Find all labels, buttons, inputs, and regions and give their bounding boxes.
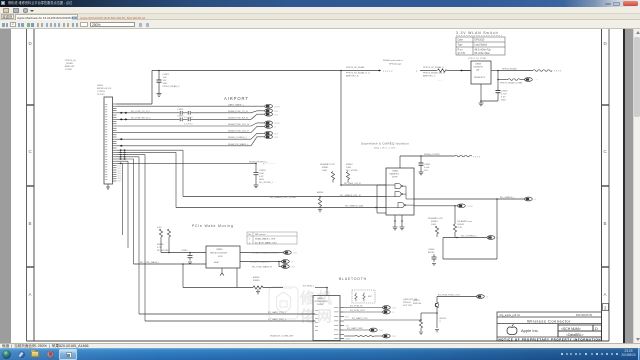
U3901 right pin wire	[491, 71, 533, 91]
svg-text:0.1uF NO: 0.1uF NO	[184, 124, 193, 126]
frame row tick left DC	[27, 104, 35, 106]
U3990 body	[206, 246, 240, 268]
svg-text:D: D	[29, 41, 33, 46]
svg-text:WL_CLKREQ_L: WL_CLKREQ_L	[461, 236, 478, 238]
mux bottom vertical to bt wire	[236, 268, 238, 288]
svg-text:@ 3.3V: @ 3.3V	[458, 53, 466, 55]
svg-text:x - - - - - - -: x - - - - - - -	[263, 163, 276, 166]
second row wavy + pad	[508, 79, 520, 81]
svg-text:WL_PCIE_RX_N_C: WL_PCIE_RX_N_C	[131, 117, 151, 119]
svg-text:16V: 16V	[163, 80, 167, 82]
R3943 cluster	[428, 217, 443, 226]
wire vertical from SMBUS junction down	[496, 199, 498, 259]
U3901 left pin	[462, 70, 471, 72]
svg-text:CTS: CTS	[345, 325, 350, 327]
BT module pin stubs	[340, 308, 344, 339]
Q4510 transistor	[435, 302, 439, 308]
BT wire row 1	[344, 307, 383, 309]
svg-text:x x: x x	[393, 335, 397, 338]
svg-text:BT_UART_TXD: BT_UART_TXD	[352, 317, 368, 320]
svg-text:WLAN_CLK32K: WLAN_CLK32K	[424, 153, 440, 156]
mux right out wire 1	[240, 252, 284, 254]
pad row 4	[251, 121, 280, 126]
svg-text:PP3V3_S0: PP3V3_S0	[65, 60, 76, 62]
capacitor C3941	[419, 156, 424, 175]
svg-text:R3990: R3990	[253, 280, 260, 282]
svg-text:J4500: J4500	[97, 85, 104, 87]
svg-text:BT_UART_RXD_L: BT_UART_RXD_L	[268, 318, 287, 321]
status bar	[0, 343, 640, 348]
svg-text:- - -: - - -	[535, 79, 539, 82]
svg-text:x x x: x x x	[275, 105, 281, 108]
frame row tick right DC	[602, 104, 610, 106]
connector pin stubs	[113, 104, 117, 181]
toolbar	[0, 20, 640, 29]
left pullup cluster labels	[157, 227, 169, 252]
svg-text:x x: x x	[275, 113, 279, 116]
svg-text:- - -: - - -	[438, 79, 442, 82]
svg-text:2N7002: 2N7002	[403, 302, 411, 304]
gate 2	[386, 192, 403, 197]
wire: top feed vertical into connector	[117, 71, 472, 105]
svg-text:U3901: U3901	[475, 64, 482, 66]
junction at cap C3901	[158, 70, 160, 72]
junction diamonds row 2	[120, 112, 128, 114]
svg-text:BT_ACPI_WAKE_L_R3991: BT_ACPI_WAKE_L_R3991	[252, 252, 280, 255]
svg-text:Type: Type	[458, 45, 464, 47]
frame row tick right BA	[602, 266, 610, 268]
svg-text:TYPE2L: TYPE2L	[97, 91, 106, 93]
BT wire row 5 wavy to pad	[344, 335, 355, 337]
net label block PP3V3 mid	[346, 66, 370, 78]
spec table	[456, 37, 505, 55]
pad row 1	[265, 104, 281, 108]
svg-text:WL_SMBUS_SCL_CONN: WL_SMBUS_SCL_CONN	[270, 197, 296, 199]
svg-text:PP3V3_WLAN: PP3V3_WLAN	[502, 67, 517, 70]
R3992 pulldown	[253, 286, 263, 294]
svg-text:A: A	[604, 292, 607, 297]
svg-text:U3990: U3990	[216, 249, 223, 251]
wire loop bottom horizontal	[443, 258, 497, 260]
mux right out wire 2 to stacked pads	[240, 262, 282, 267]
watermark text	[299, 289, 332, 325]
svg-text:x: x	[535, 198, 537, 201]
svg-text:WL_SMBUS_SDA: WL_SMBUS_SDA	[345, 205, 364, 208]
svg-text:Superflash & ClkREQ Isolation: Superflash & ClkREQ Isolation	[361, 142, 409, 146]
svg-text:GND2: GND2	[345, 338, 350, 340]
BT wire row 3 long	[344, 319, 421, 321]
svg-text:x x: x x	[380, 329, 384, 332]
svg-text:WL_SMBUS_L: WL_SMBUS_L	[500, 197, 515, 199]
watermark logo shield	[269, 287, 298, 319]
BT wire row 4	[344, 329, 370, 331]
svg-text:WLAN_PCIE_CLK_N: WLAN_PCIE_CLK_N	[228, 123, 249, 126]
window title bar	[0, 0, 640, 7]
svg-text:3.3V: 3.3V	[157, 227, 162, 229]
svg-text:BT_UART_TXD_L: BT_UART_TXD_L	[268, 311, 287, 314]
svg-text:PCIe Wake Muxing: PCIe Wake Muxing	[192, 224, 234, 228]
pullup cluster labels	[320, 163, 358, 172]
svg-text:AIRPORT: AIRPORT	[65, 65, 75, 68]
svg-text:R4510: R4510	[440, 318, 447, 320]
svg-text:WLAN_PCIE_TX_N: WLAN_PCIE_TX_N	[228, 110, 248, 113]
svg-text:0603: 0603	[259, 179, 265, 181]
svg-text:AIRPORT: AIRPORT	[224, 96, 249, 101]
svg-text:A3745: A3745	[428, 251, 435, 254]
svg-text:6.3V: 6.3V	[501, 97, 506, 99]
connector pin numbers smear	[105, 104, 107, 180]
window buttons	[605, 3, 611, 6]
wavy connection run top	[533, 70, 552, 72]
svg-text:ANT: ANT	[368, 295, 373, 298]
junction at C3918	[255, 163, 257, 165]
frame bottom line	[27, 340, 610, 342]
svg-text:SFI/Q4 page: SFI/Q4 page	[389, 63, 402, 65]
svg-text:WLAN_PE_WAKE_L: WLAN_PE_WAKE_L	[228, 143, 249, 146]
svg-text:R3990: R3990	[157, 244, 164, 246]
start orb	[2, 350, 11, 359]
svg-text:3.3V WLAN Switch: 3.3V WLAN Switch	[456, 31, 498, 35]
svg-text:C3920: C3920	[177, 115, 184, 117]
svg-text:D: D	[604, 41, 608, 46]
svg-text:SN74LVC1G3157: SN74LVC1G3157	[210, 253, 228, 255]
svg-text:BT_PCM_IN: BT_PCM_IN	[350, 306, 363, 308]
svg-text:PP3V3_S0_WLAN: PP3V3_S0_WLAN	[346, 66, 365, 69]
mux truth table	[247, 232, 297, 244]
wire BT_PCM_SYNC	[437, 297, 477, 303]
wire row 3 with series caps C3920	[117, 118, 252, 122]
long wire WL_SMBUS lower	[176, 206, 458, 208]
frame left outer line	[26, 29, 28, 341]
svg-text:100K: 100K	[431, 224, 437, 226]
svg-text:820-00165 05: 820-00165 05	[576, 313, 593, 317]
svg-text:WLAN_CLKREQ_L: WLAN_CLKREQ_L	[228, 136, 248, 139]
svg-text:B: B	[29, 221, 32, 226]
tray icons	[0, 347, 640, 349]
svg-text:0: 0	[440, 321, 442, 323]
diamond arrow mid	[378, 70, 381, 72]
svg-text:WLAN_BT_CONN_DET: WLAN_BT_CONN_DET	[270, 335, 294, 338]
svg-text:4.7uF: 4.7uF	[501, 94, 507, 96]
U3941 body	[386, 168, 414, 215]
svg-text:10uF: 10uF	[259, 173, 265, 175]
svg-text:US5919T: US5919T	[474, 67, 484, 69]
svg-text:Load Switch: Load Switch	[475, 44, 488, 47]
pulldown resistor A3954	[318, 197, 321, 209]
svg-text:修: 修	[299, 289, 316, 307]
sheet number box right	[603, 304, 609, 311]
junction diamond cluster lower pins	[119, 149, 126, 164]
pullup resistors pair	[159, 229, 162, 237]
svg-text:x x: x x	[275, 136, 279, 139]
menu/tool row	[0, 7, 640, 14]
svg-text:PP3V3_S0_WLAN: PP3V3_S0_WLAN	[468, 57, 487, 60]
connector J4500 body	[104, 97, 113, 184]
svg-text:WLAN connected to: WLAN connected to	[383, 59, 403, 62]
svg-text:WLAN_WAKE_L YES: WLAN_WAKE_L YES	[255, 237, 276, 240]
wire row 7	[117, 145, 252, 147]
svg-text:WL_ACPI_WAKE_L: WL_ACPI_WAKE_L	[250, 261, 270, 264]
pad row 6	[251, 131, 278, 139]
svg-text:x: x	[292, 261, 294, 264]
svg-text:NOTICE OF PROPRIETARY PROPERTY: NOTICE OF PROPRIETARY PROPERTY INFORMATI…	[499, 337, 601, 341]
pad row 3	[251, 112, 278, 119]
wire row 5	[117, 132, 252, 134]
svg-text:DFN2020: DFN2020	[475, 40, 486, 42]
svg-text:BLUETOOTH: BLUETOOTH	[339, 277, 367, 281]
svg-text:R on: R on	[458, 49, 464, 51]
svg-text:A3954: A3954	[317, 191, 324, 194]
net label block before U3901	[423, 66, 445, 78]
active app button	[59, 349, 77, 360]
svg-text:C3903: C3903	[501, 91, 508, 93]
frame right inner line	[601, 29, 603, 341]
svg-text:SEL source: SEL source	[255, 233, 267, 236]
frame left inner line	[33, 29, 35, 341]
svg-text:BT_PDN_L: BT_PDN_L	[303, 286, 315, 288]
wire loop left vertical	[442, 238, 444, 260]
svg-text:A: A	[29, 292, 32, 297]
svg-text:74AUP2G: 74AUP2G	[389, 173, 399, 176]
frame row tick left BA	[27, 266, 35, 268]
below box stubs and grounds	[393, 215, 405, 230]
svg-text:0.1uF: 0.1uF	[424, 167, 430, 169]
clock	[620, 349, 637, 359]
svg-text:x x x x x: x x x x x	[383, 70, 393, 73]
svg-text:A3990: A3990	[253, 276, 260, 279]
wavy run right of clk	[455, 155, 472, 157]
svg-text:- - - - - -: - - - - - -	[284, 287, 292, 290]
svg-text:PP3V3_S0_WLAN_F: PP3V3_S0_WLAN_F	[423, 66, 444, 69]
svg-text:1: 1	[249, 238, 251, 240]
svg-text:C3918: C3918	[259, 170, 266, 172]
diamond before U3901 pin	[460, 70, 463, 72]
svg-text:x: x	[275, 126, 277, 129]
junction SDA	[375, 207, 377, 209]
U3901 body	[471, 61, 491, 84]
pad row 7	[251, 135, 278, 146]
svg-text:DOCK1: DOCK1	[97, 94, 105, 96]
svg-text:PP3V3_WLAN_SW_U: PP3V3_WLAN_SW_U	[423, 72, 445, 75]
dashed matching network box	[352, 290, 375, 303]
svg-text:MICRO-DOCK: MICRO-DOCK	[97, 88, 112, 90]
svg-text:BT_PCM_SYNC_OUT: BT_PCM_SYNC_OUT	[438, 294, 461, 296]
svg-text:WLAN/BT mux: WLAN/BT mux	[458, 220, 473, 223]
BT stub labels	[345, 316, 350, 340]
junction diamonds row 3	[120, 118, 128, 120]
page right edge dark line	[623, 29, 625, 343]
frame right outer line	[608, 29, 610, 341]
svg-text:WLAN/BT 3.3V: WLAN/BT 3.3V	[428, 217, 443, 220]
svg-text:delay = 25 ns +/- 10%: delay = 25 ns +/- 10%	[374, 148, 395, 150]
svg-text:<SCH NUM>: <SCH NUM>	[561, 327, 581, 331]
svg-text:PP3V3_WLAN_X: PP3V3_WLAN_X	[163, 85, 181, 88]
svg-text:x x x x: x x x x	[554, 70, 562, 73]
svg-text:100K: 100K	[322, 170, 328, 172]
U3901 bottom pin + ground	[479, 84, 484, 106]
Q4510 area	[413, 300, 422, 305]
wire BT uart rxd long	[145, 320, 316, 322]
svg-text:AIRPORT_C: AIRPORT_C	[423, 75, 436, 78]
mux bottom power flag	[220, 268, 224, 276]
svg-text:BT MODULE: BT MODULE	[315, 301, 328, 303]
svg-text:RTS: RTS	[345, 316, 349, 318]
svg-text:R3942: R3942	[458, 224, 465, 226]
svg-text:x: x	[416, 70, 418, 73]
svg-text:mfg_apple_pdf rel: mfg_apple_pdf rel	[499, 313, 520, 317]
pad WL_SMBUS right	[525, 197, 537, 201]
svg-text:Case: Case	[458, 40, 464, 42]
R3942 drop from SDA output	[443, 206, 487, 238]
svg-text:07GF: 07GF	[392, 177, 398, 179]
svg-text:Wireless Connector: Wireless Connector	[527, 319, 571, 324]
svg-text:WLAN_PCIE_RX_N: WLAN_PCIE_RX_N	[228, 116, 248, 119]
svg-text:2: 2	[604, 306, 607, 311]
connector J4500 label block	[97, 85, 112, 96]
svg-text:Apple Inc.: Apple Inc.	[521, 328, 539, 333]
pullup resistor R3941	[331, 172, 334, 183]
svg-text:R3944: R3944	[346, 164, 353, 166]
svg-text:WL_SMBUS_SCL_R: WL_SMBUS_SCL_R	[340, 195, 361, 197]
svg-text:6.3V: 6.3V	[259, 176, 264, 178]
svg-text:C: C	[604, 149, 608, 154]
svg-text:PP3V3_S0_WLAN_F_U: PP3V3_S0_WLAN_F_U	[346, 72, 370, 75]
long wire WL_SMBUS upper	[183, 197, 525, 200]
svg-text:C3921: C3921	[177, 109, 184, 111]
svg-text:WLAN 3V3: WLAN 3V3	[474, 76, 486, 79]
bus turn wires to verticals	[117, 150, 184, 321]
note text WLAN enable	[383, 59, 403, 65]
wire BT uart txd long	[139, 313, 316, 315]
feedback loop wire	[377, 185, 386, 213]
capacitor C3918	[254, 163, 259, 187]
svg-text:AIRPORT_B: AIRPORT_B	[346, 75, 359, 78]
svg-text:x: x	[487, 296, 489, 299]
C4530 cluster	[428, 249, 435, 254]
svg-text:B: B	[604, 221, 607, 226]
svg-text:48.5 mOhm Typ: 48.5 mOhm Typ	[475, 49, 492, 51]
svg-text:100K: 100K	[346, 167, 352, 169]
BT module body	[313, 296, 340, 341]
svg-text:BT_ACPI_WAKE_L NO: BT_ACPI_WAKE_L NO	[255, 241, 277, 244]
wires from pullups	[161, 237, 206, 253]
svg-text:4.7K: 4.7K	[458, 227, 463, 229]
capacitor C3903	[481, 91, 501, 102]
wire WL_PCIE_WAKE_L into mux	[134, 263, 207, 265]
svg-text:D: D	[595, 327, 598, 331]
svg-text:CONN: CONN	[65, 69, 72, 71]
svg-text:BSS138: BSS138	[413, 303, 422, 305]
svg-text:x x: x x	[294, 252, 298, 255]
connector unused pin labels	[118, 166, 122, 183]
svg-text:x x x x: x x x x	[473, 155, 481, 158]
wire row PE_RST	[117, 162, 257, 164]
svg-text:SOT-923: SOT-923	[403, 305, 413, 307]
svg-text:Q4510 BT_EN: Q4510 BT_EN	[403, 299, 418, 301]
wire row 6	[117, 138, 252, 140]
net label top-left block	[64, 60, 76, 71]
svg-text:x: x	[393, 311, 395, 314]
wire row 2 with series caps C3921	[117, 111, 252, 115]
svg-text:x x: x x	[292, 266, 296, 269]
Q4510 lower wiring	[419, 307, 439, 334]
svg-text:0402: 0402	[501, 100, 507, 102]
svg-text:NO_STUFF_L: NO_STUFF_L	[259, 182, 274, 184]
tab bar	[0, 14, 640, 20]
wire row 1 UART_WAKE_L	[117, 105, 265, 107]
wire: main top horizontal	[152, 70, 341, 72]
pad row 2	[251, 109, 278, 113]
svg-text:PP3V3_WLAN_CONN: PP3V3_WLAN_CONN	[500, 81, 522, 84]
svg-text:C4530: C4530	[428, 249, 435, 251]
pullup resistor R3944	[346, 172, 349, 183]
junction at x341	[340, 70, 342, 72]
svg-text:U4510: U4510	[317, 298, 324, 300]
BT module inner pin names	[315, 307, 339, 339]
svg-text:WLAN_PCIE_CLK_P: WLAN_PCIE_CLK_P	[228, 130, 249, 133]
svg-text:C3941: C3941	[424, 164, 431, 166]
ground under connector	[106, 184, 110, 189]
svg-text:20705: 20705	[317, 304, 324, 306]
title block	[497, 312, 602, 341]
long bottom wire to BT	[183, 264, 327, 296]
apple logo	[507, 324, 517, 334]
svg-text:WL_PCIE_WAKE_L: WL_PCIE_WAKE_L	[140, 261, 160, 264]
pad row 5	[251, 125, 277, 133]
svg-text:QE: QE	[476, 70, 480, 72]
taskbar	[0, 348, 640, 360]
svg-text:R3941: R3941	[322, 167, 329, 169]
wire row 4	[117, 125, 252, 127]
capacitor C3990	[188, 253, 193, 264]
svg-text:C: C	[29, 149, 33, 154]
svg-text:_WLAN: _WLAN	[64, 62, 73, 65]
svg-text:x x: x x	[393, 307, 397, 310]
gate 1	[386, 184, 403, 189]
svg-text:R3943: R3943	[431, 221, 438, 223]
svg-text:0201: 0201	[163, 83, 169, 85]
frame row tick left CB	[27, 185, 35, 187]
svg-text:C3990: C3990	[181, 250, 188, 252]
svg-text:DCK: DCK	[218, 256, 223, 258]
app icons	[18, 351, 25, 358]
svg-text:网: 网	[317, 308, 332, 325]
svg-text:WLAN/BT 3.3V: WLAN/BT 3.3V	[320, 163, 335, 166]
C3901 value labels	[163, 74, 181, 88]
svg-text:BT_UART_RXD: BT_UART_RXD	[347, 327, 363, 330]
svg-text:NO_STUFF: NO_STUFF	[157, 250, 169, 252]
scrollbar	[633, 29, 640, 343]
svg-text:WL_REG_ON_R: WL_REG_ON_R	[344, 183, 361, 185]
svg-text:NC7: NC7	[118, 181, 122, 183]
long vertical from top wire	[340, 71, 342, 186]
pad SDA mid	[458, 204, 474, 208]
junction x341 bottom	[340, 184, 342, 186]
capacitor C3901	[157, 71, 162, 97]
svg-text:x: x	[497, 237, 499, 240]
C3918 labels	[259, 170, 274, 184]
svg-text:WL_PCIE_WAKE_R: WL_PCIE_WAKE_R	[252, 265, 272, 268]
svg-text:U3941: U3941	[392, 171, 399, 173]
inline resistor R3901	[438, 69, 448, 72]
frame row tick right CB	[602, 185, 610, 187]
svg-text:WL_PCIE_TX_N_C: WL_PCIE_TX_N_C	[131, 111, 151, 113]
svg-text:BT_PCM_OUT: BT_PCM_OUT	[350, 310, 365, 312]
svg-text:UART_WAKE_L: UART_WAKE_L	[228, 103, 245, 106]
BT wire row 2	[344, 311, 383, 313]
svg-text:55 mOhm Max: 55 mOhm Max	[475, 53, 491, 55]
U3941 top pin to clk wire	[400, 156, 455, 168]
